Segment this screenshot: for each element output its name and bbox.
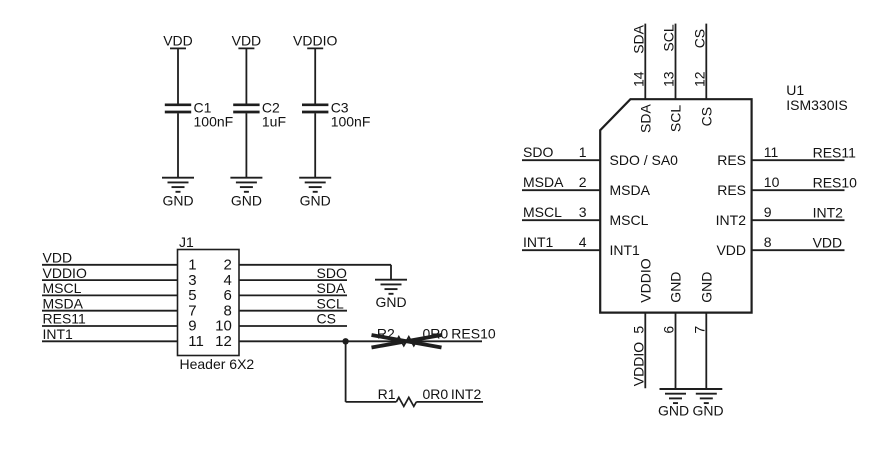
wire net SDA to U1 pin 14: [630, 24, 646, 100]
svg-text:GND: GND: [300, 193, 331, 209]
wire net SDO from J1 pin 4: [239, 265, 347, 281]
wire U1 pin 10 to net RES10: [752, 174, 858, 191]
wire J1 pin 12 to R2: [239, 340, 396, 342]
svg-text:RES: RES: [717, 152, 746, 168]
svg-text:SDO / SA0: SDO / SA0: [610, 152, 679, 168]
svg-text:3: 3: [579, 204, 587, 220]
svg-text:7: 7: [691, 326, 707, 334]
svg-text:U1: U1: [786, 82, 804, 98]
svg-text:VDDIO: VDDIO: [293, 32, 337, 48]
resistor R1 0R0 (net INT2): [378, 386, 482, 406]
svg-text:GND: GND: [375, 294, 406, 310]
svg-text:10: 10: [764, 174, 780, 190]
svg-text:100nF: 100nF: [194, 114, 234, 130]
wire C2 to ground: [245, 113, 247, 178]
svg-text:GND: GND: [693, 403, 724, 419]
wire U1 pin 6 to ground: [661, 313, 677, 389]
wire net SDA from J1 pin 6: [239, 280, 347, 296]
svg-text:RES: RES: [717, 182, 746, 198]
svg-text:9: 9: [764, 204, 772, 220]
svg-text:SDA: SDA: [630, 24, 646, 53]
svg-text:INT1: INT1: [43, 326, 74, 342]
svg-text:100nF: 100nF: [331, 114, 371, 130]
resistor R2 0R0 (crossed out, net RES10): [377, 325, 496, 345]
wire net INT1 to J1 pin 11: [42, 326, 178, 342]
wire net CS from J1 pin 10: [239, 311, 347, 327]
svg-text:14: 14: [630, 71, 646, 87]
svg-text:MSDA: MSDA: [523, 174, 564, 190]
svg-text:INT1: INT1: [610, 242, 641, 258]
svg-text:GND: GND: [668, 272, 684, 303]
svg-text:SDO: SDO: [317, 265, 347, 281]
wire net VDDIO to J1 pin 3: [42, 265, 178, 281]
svg-text:MSCL: MSCL: [523, 204, 562, 220]
IC U1 body (chamfered box): [600, 99, 751, 312]
wire net VDD to J1 pin 1: [42, 250, 178, 266]
wire U1 pin 7 to ground: [691, 313, 707, 389]
wire net SCL from J1 pin 8: [239, 295, 347, 311]
svg-text:8: 8: [764, 234, 772, 250]
svg-text:RES10: RES10: [451, 325, 496, 341]
wire junction down to R1: [346, 341, 397, 402]
wire net SDO to U1 pin 1: [522, 144, 600, 160]
svg-text:11: 11: [188, 333, 204, 350]
svg-text:SDA: SDA: [317, 280, 346, 296]
wire VDD to C2: [245, 48, 247, 103]
svg-text:VDD: VDD: [232, 32, 262, 48]
pin numbers J1 left column 1,3,5,7,9,11: [188, 257, 204, 351]
svg-text:INT2: INT2: [716, 212, 747, 228]
svg-text:RES10: RES10: [813, 175, 858, 191]
cross-out X over R2: [372, 335, 442, 348]
wire net SCL to U1 pin 13: [661, 24, 677, 100]
svg-text:GND: GND: [658, 403, 689, 419]
svg-text:CS: CS: [698, 107, 714, 126]
svg-text:VDD: VDD: [813, 235, 843, 251]
svg-text:MSDA: MSDA: [43, 295, 84, 311]
ground (below C3): [299, 178, 331, 209]
wire U1 pin 11 to net RES11: [752, 144, 857, 161]
svg-text:0R0: 0R0: [423, 386, 449, 402]
capacitor C1 100nF: [165, 100, 233, 130]
ground (below C1): [162, 178, 194, 209]
capacitor C3 100nF: [302, 100, 370, 130]
svg-text:SDO: SDO: [523, 144, 553, 160]
svg-text:VDDIO: VDDIO: [43, 265, 87, 281]
power port VDDIO (at C3): [293, 32, 337, 48]
ground (J1 pin 2): [375, 280, 407, 310]
wire net CS to U1 pin 12: [691, 24, 707, 100]
svg-text:GND: GND: [231, 193, 262, 209]
svg-text:1: 1: [579, 144, 587, 160]
wire net MSCL to J1 pin 5: [42, 280, 178, 296]
header J1 box: [178, 234, 255, 372]
wire C1 to ground: [177, 113, 179, 178]
svg-text:VDDIO: VDDIO: [637, 258, 653, 302]
wire net MSDA to U1 pin 2: [522, 174, 600, 190]
wire R2 to net RES10: [416, 340, 482, 342]
junction node on INT1 wire: [342, 338, 348, 344]
svg-text:CS: CS: [317, 311, 336, 327]
svg-text:INT1: INT1: [523, 234, 554, 250]
wire C3 to ground: [314, 113, 316, 178]
svg-text:6: 6: [661, 326, 677, 334]
svg-text:VDD: VDD: [163, 32, 193, 48]
svg-text:GND: GND: [162, 193, 193, 209]
svg-text:RES11: RES11: [43, 311, 87, 327]
svg-text:J1: J1: [179, 234, 194, 250]
svg-text:R1: R1: [378, 386, 396, 402]
svg-text:VDDIO: VDDIO: [630, 342, 646, 386]
svg-text:INT2: INT2: [813, 205, 844, 221]
ground (U1 pin 6): [658, 389, 692, 419]
wire net INT1 to U1 pin 4: [522, 234, 600, 250]
svg-text:SDA: SDA: [637, 104, 653, 133]
ground (U1 pin 7): [690, 389, 723, 419]
wire net MSCL to U1 pin 3: [522, 204, 600, 220]
svg-text:GND: GND: [698, 272, 714, 303]
svg-text:ISM330IS: ISM330IS: [786, 97, 847, 113]
power port VDD (at C1): [163, 32, 193, 48]
svg-text:VDD: VDD: [43, 250, 73, 266]
svg-text:MSCL: MSCL: [610, 212, 649, 228]
svg-text:SCL: SCL: [317, 295, 344, 311]
svg-text:SCL: SCL: [661, 24, 677, 51]
svg-text:INT2: INT2: [451, 386, 482, 402]
svg-text:4: 4: [579, 234, 587, 250]
pin numbers J1 right column 2,4,6,8,10,12: [215, 257, 232, 351]
wire net RES11 to J1 pin 9: [42, 311, 178, 327]
capacitor C2 1uF: [233, 100, 286, 130]
wire J1 pin 2 to ground: [239, 265, 391, 280]
svg-text:MSDA: MSDA: [610, 182, 651, 198]
svg-text:5: 5: [630, 326, 646, 334]
power port VDD (at C2): [232, 32, 262, 48]
wire net MSDA to J1 pin 7: [42, 295, 178, 311]
ground (below C2): [230, 178, 262, 209]
svg-text:MSCL: MSCL: [43, 280, 82, 296]
wire VDDIO to C3: [314, 48, 316, 103]
wire VDD to C1: [177, 48, 179, 103]
svg-text:11: 11: [764, 144, 779, 160]
wire R1 to net INT2: [416, 401, 483, 403]
wire U1 pin 8 to net VDD: [752, 234, 845, 251]
svg-text:12: 12: [691, 71, 707, 87]
svg-text:2: 2: [579, 174, 587, 190]
svg-text:1uF: 1uF: [262, 114, 286, 130]
svg-text:Header 6X2: Header 6X2: [180, 356, 255, 372]
svg-text:12: 12: [215, 333, 232, 350]
op-amp U1 ISM330IS designator: [786, 82, 847, 113]
svg-text:RES11: RES11: [813, 145, 857, 161]
wire U1 pin 9 to net INT2: [752, 204, 845, 221]
svg-text:VDD: VDD: [716, 242, 746, 258]
svg-text:CS: CS: [691, 29, 707, 48]
svg-text:13: 13: [661, 71, 677, 87]
wire net VDDIO to U1 pin 5: [630, 313, 646, 389]
svg-text:SCL: SCL: [668, 105, 684, 132]
